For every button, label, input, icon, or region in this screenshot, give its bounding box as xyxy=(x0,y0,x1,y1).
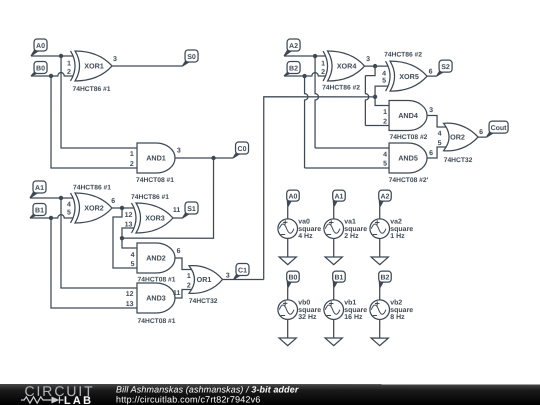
svg-text:AND4: AND4 xyxy=(398,111,418,120)
svg-text:vb2: vb2 xyxy=(390,299,402,307)
svg-text:2: 2 xyxy=(321,69,325,76)
svg-text:XOR1: XOR1 xyxy=(84,62,104,71)
svg-text:B2: B2 xyxy=(289,65,298,72)
svg-text:XOR5: XOR5 xyxy=(399,72,419,81)
svg-text:74HCT86 #1: 74HCT86 #1 xyxy=(73,86,111,93)
svg-text:square: square xyxy=(344,307,367,314)
svg-text:B2: B2 xyxy=(380,274,389,281)
svg-text:2: 2 xyxy=(67,69,71,76)
svg-text:1: 1 xyxy=(383,109,387,116)
svg-text:square: square xyxy=(390,307,413,314)
svg-text:OR2: OR2 xyxy=(450,133,465,142)
svg-text:C0: C0 xyxy=(238,146,247,153)
svg-text:AND5: AND5 xyxy=(398,154,418,163)
svg-text:A1: A1 xyxy=(335,193,344,200)
svg-text:6: 6 xyxy=(111,198,115,205)
svg-text:11: 11 xyxy=(173,290,181,297)
svg-text:74HCT32: 74HCT32 xyxy=(189,298,218,305)
svg-text:74HCT08 #1: 74HCT08 #1 xyxy=(138,276,176,283)
svg-text:2 Hz: 2 Hz xyxy=(344,233,359,240)
svg-text:XOR3: XOR3 xyxy=(145,214,165,223)
svg-text:4: 4 xyxy=(67,202,71,209)
svg-text:4: 4 xyxy=(131,252,135,259)
svg-text:S0: S0 xyxy=(187,54,196,61)
svg-text:6: 6 xyxy=(479,129,483,136)
svg-text:AND1: AND1 xyxy=(146,154,166,163)
svg-text:2: 2 xyxy=(130,161,134,168)
svg-text:square: square xyxy=(298,226,321,233)
svg-text:A1: A1 xyxy=(35,185,44,192)
svg-text:2: 2 xyxy=(187,283,191,290)
svg-text:square: square xyxy=(344,226,367,233)
svg-text:vb0: vb0 xyxy=(298,299,310,307)
svg-text:3: 3 xyxy=(113,56,117,63)
svg-text:AND3: AND3 xyxy=(146,294,166,303)
svg-text:74HCT86 #1: 74HCT86 #1 xyxy=(131,194,169,201)
svg-text:74HCT86 #1: 74HCT86 #1 xyxy=(73,184,111,191)
svg-text:va0: va0 xyxy=(298,219,310,226)
svg-text:3: 3 xyxy=(366,56,370,63)
svg-text:square: square xyxy=(390,226,413,233)
svg-text:va1: va1 xyxy=(344,219,356,226)
svg-text:8 Hz: 8 Hz xyxy=(390,314,405,321)
svg-text:5: 5 xyxy=(383,160,387,167)
svg-text:S2: S2 xyxy=(441,64,450,71)
svg-text:6: 6 xyxy=(429,150,433,157)
svg-text:A2: A2 xyxy=(289,43,298,50)
svg-text:5: 5 xyxy=(438,140,442,147)
svg-text:1 Hz: 1 Hz xyxy=(390,233,405,240)
svg-text:OR1: OR1 xyxy=(197,275,212,284)
svg-text:B1: B1 xyxy=(35,207,44,214)
svg-text:B0: B0 xyxy=(288,274,297,281)
svg-text:LAB: LAB xyxy=(64,395,93,405)
svg-text:A0: A0 xyxy=(36,43,45,50)
svg-text:74HCT86 #2: 74HCT86 #2 xyxy=(322,85,360,92)
svg-text:3: 3 xyxy=(177,147,181,154)
svg-text:5: 5 xyxy=(382,78,386,85)
svg-text:S1: S1 xyxy=(187,206,196,213)
svg-text:4: 4 xyxy=(438,131,442,138)
svg-text:1: 1 xyxy=(67,60,71,67)
svg-text:1: 1 xyxy=(187,273,191,280)
svg-text:2: 2 xyxy=(383,119,387,126)
svg-text:1: 1 xyxy=(130,151,134,158)
svg-text:XOR2: XOR2 xyxy=(84,204,104,213)
svg-text:74HCT08 #1: 74HCT08 #1 xyxy=(138,318,176,325)
svg-text:3: 3 xyxy=(226,273,230,280)
svg-text:12: 12 xyxy=(125,212,133,219)
svg-text:74HCT08 #1: 74HCT08 #1 xyxy=(136,177,174,184)
svg-text:Bill Ashmanskas (ashmanskas) /: Bill Ashmanskas (ashmanskas) / 3-bit add… xyxy=(116,385,299,395)
svg-text:XOR4: XOR4 xyxy=(337,62,357,71)
svg-text:C1: C1 xyxy=(238,267,247,274)
svg-text:1: 1 xyxy=(321,60,325,67)
svg-text:74HCT32: 74HCT32 xyxy=(444,157,473,164)
svg-text:74HCT08 #2': 74HCT08 #2' xyxy=(389,177,429,184)
svg-text:square: square xyxy=(298,307,321,314)
svg-text:12: 12 xyxy=(126,291,134,298)
svg-text:32 Hz: 32 Hz xyxy=(298,314,317,321)
svg-text:Cout: Cout xyxy=(491,125,508,132)
svg-text:B1: B1 xyxy=(334,274,343,281)
svg-text:4: 4 xyxy=(383,151,387,158)
svg-text:AND2: AND2 xyxy=(146,254,166,263)
svg-text:5: 5 xyxy=(131,261,135,268)
svg-text:13: 13 xyxy=(126,301,134,308)
svg-text:http://circuitlab.com/c7rt82r7: http://circuitlab.com/c7rt82r7942v6 xyxy=(116,394,261,404)
svg-text:6: 6 xyxy=(177,248,181,255)
svg-text:13: 13 xyxy=(125,221,133,228)
svg-text:va2: va2 xyxy=(390,219,402,226)
svg-text:3: 3 xyxy=(429,107,433,114)
svg-text:4 Hz: 4 Hz xyxy=(298,233,313,240)
svg-text:A0: A0 xyxy=(289,193,298,200)
svg-text:11: 11 xyxy=(173,207,181,214)
svg-text:A2: A2 xyxy=(381,193,390,200)
svg-text:5: 5 xyxy=(67,209,71,216)
svg-text:16 Hz: 16 Hz xyxy=(344,314,363,321)
svg-text:B0: B0 xyxy=(36,65,45,72)
svg-text:74HCT08 #2: 74HCT08 #2 xyxy=(389,134,427,141)
svg-text:6: 6 xyxy=(429,68,433,75)
svg-text:74HCT86 #2: 74HCT86 #2 xyxy=(384,52,422,59)
svg-text:4: 4 xyxy=(382,70,386,77)
svg-text:vb1: vb1 xyxy=(344,299,356,307)
